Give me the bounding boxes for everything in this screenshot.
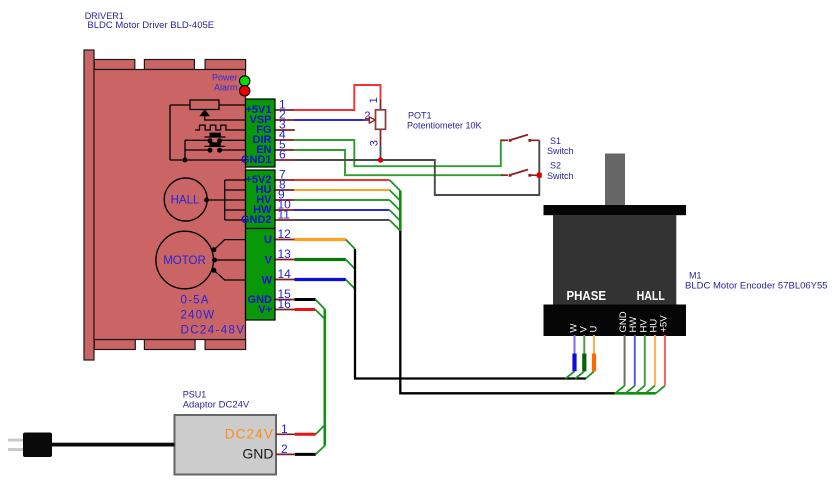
wire POT1 pin3 to GND (dark gray) xyxy=(380,146,382,160)
driver DRIVER1 left mounting strip xyxy=(84,50,94,360)
internal junction dot xyxy=(183,158,188,163)
svg-text:Adaptor DC24V: Adaptor DC24V xyxy=(183,400,250,411)
power bundle entries at PSU (green diagonals) xyxy=(316,425,325,455)
power bundle green vertical xyxy=(323,309,326,445)
pin stubs 1-16 xyxy=(276,110,295,310)
svg-text:12: 12 xyxy=(278,227,292,241)
internal ground rail wire xyxy=(170,140,246,160)
bus entries for pins 7-11 (green diagonals) xyxy=(390,180,401,231)
internal pulse (FG) symbol xyxy=(195,125,245,130)
wire pin13 V thick green xyxy=(295,258,346,261)
driver DRIVER1 bottom tab 1 xyxy=(94,340,135,350)
wire PSU1 GND (black) xyxy=(295,453,316,456)
connector block J3 (pins 12-16) xyxy=(246,229,276,321)
internal HALL sensor circle xyxy=(164,178,207,221)
PSU1 pin 2 stub xyxy=(276,453,295,455)
mains plug body xyxy=(23,433,52,458)
svg-text:6: 6 xyxy=(279,148,286,162)
svg-text:13: 13 xyxy=(278,247,292,261)
wire pin9 HV green xyxy=(294,199,390,201)
POT1 pin1 stub xyxy=(380,100,382,110)
LED Power (green) xyxy=(240,76,250,86)
svg-text:DC24V: DC24V xyxy=(225,427,274,442)
wire pin11 GND2 dark gray xyxy=(294,219,390,221)
internal trimmer symbol xyxy=(170,100,246,160)
svg-text:Switch: Switch xyxy=(547,171,574,181)
pin number labels 1-16 xyxy=(278,98,292,312)
phase wire W thick segment (blue) xyxy=(572,354,576,372)
connector block J2 (pins 7-11) xyxy=(246,170,276,229)
driver DRIVER1 body xyxy=(94,70,246,340)
power supply PSU1 box xyxy=(175,415,277,475)
internal MOTOR wires U V W xyxy=(214,240,246,280)
junction dot at POT1 pin3 / GND net (red) xyxy=(378,157,383,162)
wire pin14 W thick blue xyxy=(295,278,346,281)
mains cable xyxy=(52,443,175,447)
bus entries pins 12-14 (green diagonals) xyxy=(346,240,355,290)
motor M1 top cap xyxy=(544,205,687,215)
svg-text:BLDC Motor Encoder 57BL06Y55: BLDC Motor Encoder 57BL06Y55 xyxy=(685,280,828,291)
hall bus entries (green diagonals) xyxy=(615,386,665,394)
hall bundle green segment xyxy=(399,191,402,232)
svg-text:PSU1: PSU1 xyxy=(183,389,207,399)
svg-text:S2: S2 xyxy=(550,161,561,171)
wire VSP to POT1 wiper (blue) xyxy=(294,119,364,121)
svg-text:HALL: HALL xyxy=(171,195,200,207)
svg-text:POT1: POT1 xyxy=(408,110,432,120)
svg-text:M1: M1 xyxy=(689,270,702,280)
internal button EN xyxy=(185,142,246,152)
svg-text:BLDC Motor Driver BLD-405E: BLDC Motor Driver BLD-405E xyxy=(87,20,214,31)
driver DRIVER1 top tab 3 xyxy=(205,60,246,70)
motor M1 body xyxy=(553,215,676,305)
svg-text:U: U xyxy=(589,326,600,333)
motor phase pin W thin drop xyxy=(574,335,576,354)
wire +5V1 to POT1 pin1 (red) xyxy=(294,85,381,110)
wire pin12 U thick orange xyxy=(295,238,346,241)
wire pin8 HU orange xyxy=(294,189,390,191)
svg-text:MOTOR: MOTOR xyxy=(163,255,206,267)
PSU1 pin 1 stub xyxy=(276,433,295,435)
svg-text:Switch: Switch xyxy=(547,146,574,156)
phase bus black vertical + horizontal xyxy=(355,249,586,379)
wire pin16 V+ thick red xyxy=(295,308,316,311)
svg-text:3: 3 xyxy=(368,140,380,146)
svg-text:DC24-48V: DC24-48V xyxy=(181,324,246,336)
motor M1 shaft xyxy=(605,154,625,206)
motor hall pin +5V drop xyxy=(664,335,666,386)
motor phase pin V thin drop xyxy=(583,335,585,354)
internal MOTOR node dots xyxy=(211,247,216,252)
motor M1 bottom cap xyxy=(544,305,687,337)
connector block J1 (pins 1-6) xyxy=(246,99,276,167)
wire GND1 net (dark gray) xyxy=(294,140,539,195)
svg-text:GND: GND xyxy=(242,446,273,462)
driver DRIVER1 bottom tab 3 xyxy=(205,340,246,350)
driver DRIVER1 bottom tab 2 xyxy=(144,340,195,350)
svg-text:2: 2 xyxy=(364,110,370,122)
POT1 pin3 stub xyxy=(380,129,382,146)
power bundle entries (green diagonals) xyxy=(315,300,325,320)
phase wire U thick segment (orange) xyxy=(592,354,596,372)
svg-text:Potentiometer 10K: Potentiometer 10K xyxy=(407,121,482,131)
svg-text:S1: S1 xyxy=(550,136,561,146)
svg-text:+5V: +5V xyxy=(658,315,669,333)
wire pin10 HW blue xyxy=(294,209,390,211)
motor hall pin HV drop xyxy=(644,335,646,386)
motor hall pin GND drop xyxy=(624,335,626,386)
internal HALL node dot xyxy=(204,198,209,203)
motor hall pin HU drop xyxy=(654,335,656,386)
svg-text:GND2: GND2 xyxy=(241,214,272,226)
svg-text:V: V xyxy=(578,326,589,333)
svg-text:V: V xyxy=(265,254,273,266)
phase wire V thick segment (green) xyxy=(582,354,586,372)
svg-text:W: W xyxy=(262,274,273,286)
svg-text:1: 1 xyxy=(368,97,380,103)
svg-text:16: 16 xyxy=(278,297,292,311)
svg-text:240W: 240W xyxy=(181,310,216,322)
svg-text:1: 1 xyxy=(281,422,288,436)
motor hall pin HW drop xyxy=(634,335,636,386)
driver DRIVER1 top tab 1 xyxy=(94,60,135,70)
internal MOTOR circle xyxy=(156,231,214,289)
switch S2 xyxy=(501,170,537,177)
svg-text:0-5A: 0-5A xyxy=(181,294,210,306)
switch S1 xyxy=(501,135,540,142)
label DRIVER1 xyxy=(85,11,214,31)
hall bus green collector segment xyxy=(615,392,656,395)
svg-text:HALL: HALL xyxy=(637,288,665,303)
svg-text:U: U xyxy=(264,234,272,246)
connector pin name labels xyxy=(241,104,273,316)
svg-text:GND1: GND1 xyxy=(241,154,272,166)
driver DRIVER1 top tab 2 xyxy=(144,60,194,70)
mains plug prong 1 xyxy=(8,439,24,442)
internal HALL harness wires xyxy=(207,180,246,220)
wire PSU1 DC24V (red) xyxy=(295,433,316,436)
potentiometer POT1 body xyxy=(376,110,386,130)
svg-text:11: 11 xyxy=(278,208,291,222)
wire EN to S2 (green) xyxy=(294,150,505,175)
svg-text:2: 2 xyxy=(281,442,288,456)
POT1 wiper arrow stub xyxy=(364,119,370,121)
wire pin15 GND thick black xyxy=(295,298,316,301)
hall bus black vertical + horizontal xyxy=(400,231,615,393)
motor phase pin U thin drop xyxy=(593,335,595,354)
internal trimmer wiper arrow xyxy=(200,110,209,116)
internal button DIR xyxy=(185,133,246,144)
phase bus entries (green diagonals) xyxy=(566,371,595,378)
LED Alarm (red) xyxy=(240,86,250,96)
svg-text:V+: V+ xyxy=(258,304,272,316)
wire DIR to S1 (green) xyxy=(294,140,505,166)
junction square S2/GND net (red) xyxy=(537,173,542,178)
svg-text:Alarm: Alarm xyxy=(214,82,238,92)
svg-text:Power: Power xyxy=(212,73,238,83)
wire HU+5V2 bus: pin7 red xyxy=(294,179,390,181)
svg-text:PHASE: PHASE xyxy=(567,288,607,303)
svg-text:14: 14 xyxy=(278,267,292,281)
mains plug prong 2 xyxy=(8,448,24,451)
internal wiper wire to VSP xyxy=(205,115,246,120)
